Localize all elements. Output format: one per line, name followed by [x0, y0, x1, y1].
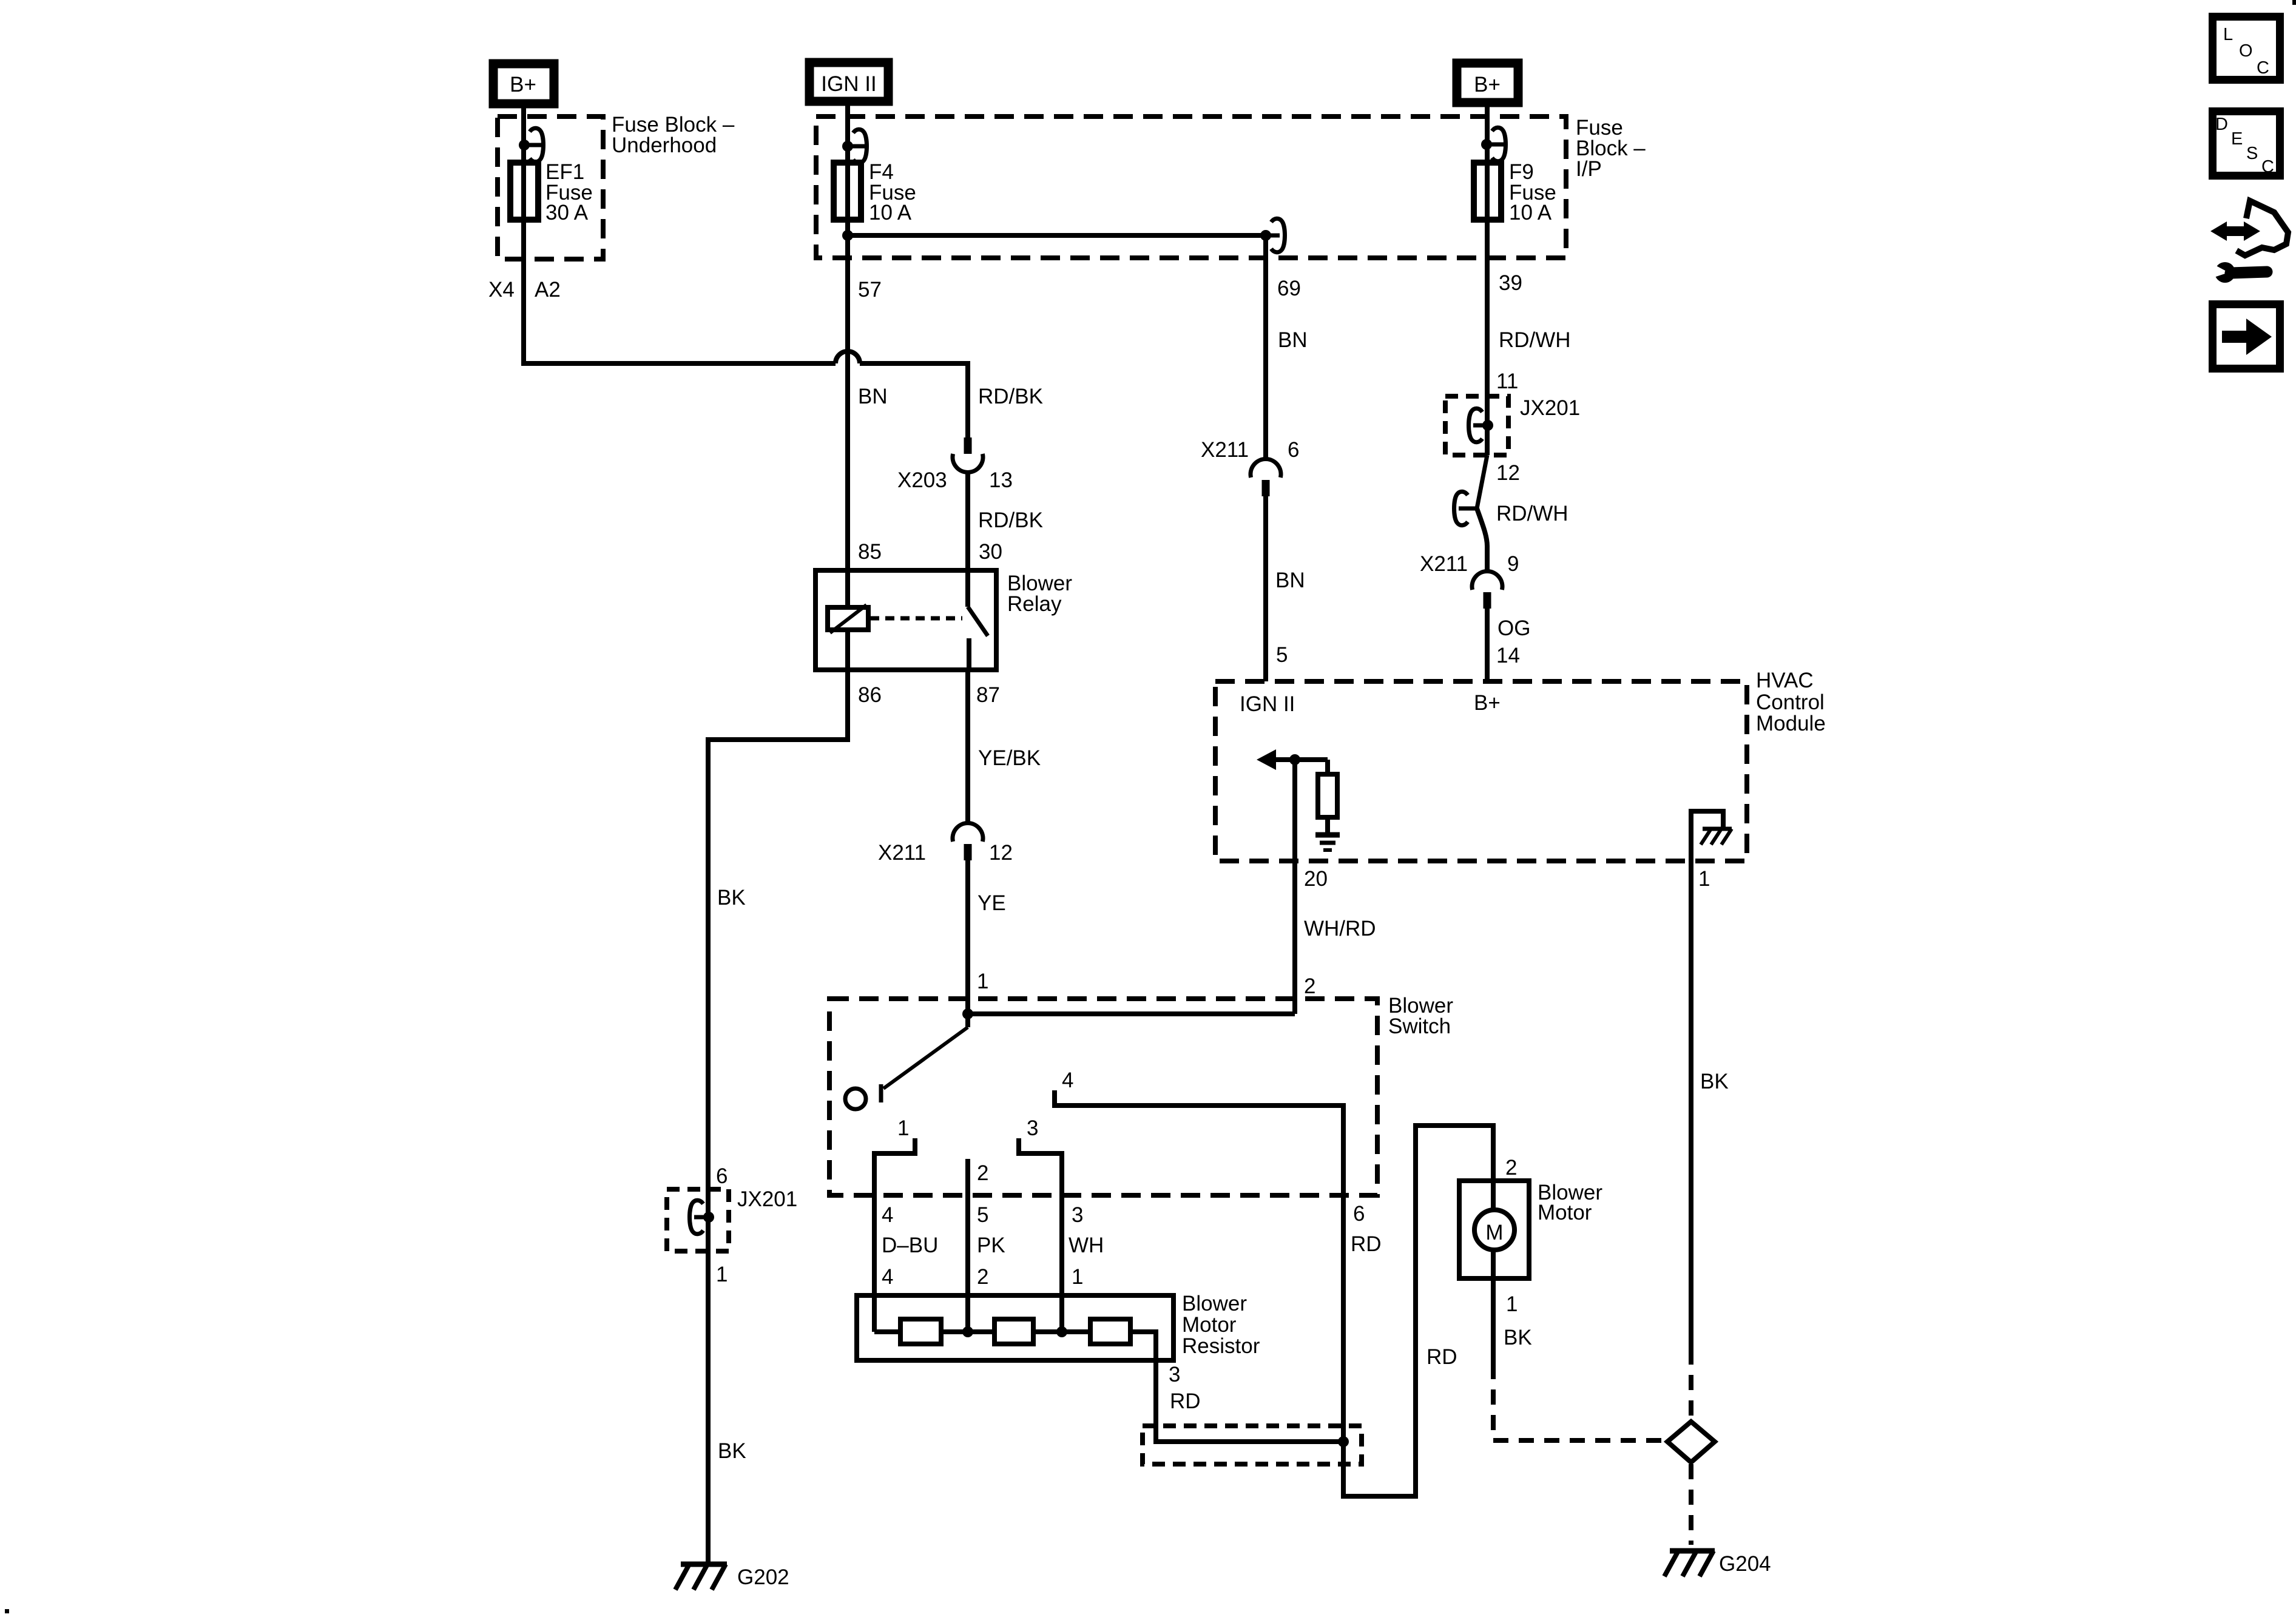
HVAC control module dashed box	[1215, 681, 1747, 861]
svg-text:11: 11	[1496, 370, 1518, 393]
HVAC internal ground	[1315, 832, 1340, 838]
svg-text:X4: X4	[488, 278, 515, 302]
svg-text:BN: BN	[1275, 569, 1305, 592]
page footer dot	[5, 1609, 9, 1613]
HVAC internal resistor	[1325, 760, 1330, 834]
svg-text:2: 2	[1505, 1156, 1517, 1180]
arrow icon box	[2213, 305, 2280, 369]
svg-text:1: 1	[1506, 1292, 1518, 1316]
wire IGN II through F4 down to relay 85	[845, 106, 850, 570]
svg-text:OG: OG	[1497, 616, 1530, 640]
svg-text:D: D	[2215, 115, 2228, 134]
wire YE to blower switch pin 1	[965, 860, 970, 999]
svg-text:JX201: JX201	[1520, 396, 1580, 420]
svg-text:Relay: Relay	[1007, 592, 1062, 616]
svg-text:B+: B+	[510, 73, 536, 96]
svg-text:86: 86	[858, 683, 882, 707]
wire motor pin 1 BK	[1491, 1278, 1496, 1364]
B+ power box (left)	[493, 64, 554, 104]
svg-text:X211: X211	[878, 841, 926, 865]
relay actuating dashed link	[870, 616, 962, 621]
dashed wire BK to splice	[1493, 1364, 1668, 1440]
wire 69 BN down to X211-6	[1263, 235, 1268, 459]
svg-text:X211: X211	[1201, 438, 1249, 462]
svg-text:YE/BK: YE/BK	[978, 746, 1041, 770]
node F9 tap	[1481, 139, 1492, 150]
fuse F4 10A	[834, 163, 861, 220]
svg-text:1: 1	[977, 970, 988, 993]
resistor R1	[900, 1319, 941, 1344]
LOC icon box	[2213, 17, 2280, 80]
svg-text:30 A: 30 A	[545, 201, 589, 224]
svg-text:C: C	[2257, 58, 2269, 78]
svg-text:Motor: Motor	[1182, 1313, 1237, 1337]
wire F9 feed down right side	[1485, 107, 1490, 455]
blower switch wiper junction	[962, 1008, 973, 1019]
svg-text:Switch: Switch	[1388, 1014, 1451, 1038]
connector X211 pin 12	[953, 823, 983, 842]
switch arm	[883, 1027, 968, 1089]
dashed wire to splice	[1689, 1349, 1693, 1419]
svg-text:RD/BK: RD/BK	[978, 508, 1043, 532]
svg-text:30: 30	[979, 540, 1002, 564]
node 69 tap	[1260, 230, 1271, 241]
svg-text:D–BU: D–BU	[882, 1234, 938, 1257]
svg-text:M: M	[1485, 1221, 1503, 1244]
svg-text:BK: BK	[718, 1439, 746, 1463]
resistor R3	[1090, 1319, 1130, 1344]
ground G202	[681, 1562, 727, 1567]
svg-text:BK: BK	[717, 886, 746, 910]
junction JX201 right node	[1482, 420, 1493, 431]
relay switch arm 30-87	[965, 570, 970, 607]
svg-text:2: 2	[977, 1161, 988, 1185]
svg-text:RD: RD	[1351, 1232, 1382, 1256]
blower motor resistor block	[857, 1295, 1173, 1360]
fuse EF1 30A	[510, 163, 538, 220]
wire HVAC pin 1 BK down	[1689, 861, 1693, 1349]
svg-text:9: 9	[1507, 552, 1519, 576]
wire jog at JX201 pin 12	[1477, 455, 1487, 508]
svg-text:4: 4	[882, 1265, 893, 1289]
svg-text:4: 4	[1062, 1068, 1073, 1092]
svg-text:2: 2	[977, 1265, 988, 1289]
splice	[1667, 1422, 1715, 1462]
svg-text:57: 57	[858, 278, 882, 302]
double arrow and connector shape icon	[2210, 201, 2288, 255]
svg-text:B+: B+	[1474, 691, 1501, 715]
DESC icon box	[2213, 112, 2280, 177]
svg-text:PK: PK	[977, 1234, 1005, 1257]
svg-text:BK: BK	[1700, 1070, 1729, 1093]
svg-text:BN: BN	[858, 385, 888, 408]
svg-text:4: 4	[882, 1203, 893, 1227]
svg-text:L: L	[2223, 25, 2233, 44]
svg-text:O: O	[2239, 41, 2253, 61]
resistor chain wire	[874, 1332, 1343, 1442]
svg-text:A2: A2	[535, 278, 561, 302]
connector dashed box (bottom)	[1143, 1426, 1362, 1464]
svg-text:12: 12	[989, 841, 1013, 865]
fuse block I/P dashed box	[816, 116, 1566, 258]
HVAC internal command arrow	[1257, 749, 1276, 770]
page corner mark	[2292, 0, 2296, 5]
svg-text:B+: B+	[1474, 73, 1501, 96]
svg-text:BK: BK	[1504, 1326, 1532, 1349]
svg-text:WH: WH	[1069, 1234, 1104, 1257]
svg-text:1: 1	[897, 1116, 909, 1140]
node RD junction	[1338, 1436, 1349, 1447]
svg-text:Blower: Blower	[1182, 1292, 1247, 1315]
switch off contact circle	[845, 1089, 866, 1109]
svg-text:BN: BN	[1278, 328, 1308, 352]
svg-text:10 A: 10 A	[869, 201, 912, 224]
svg-text:85: 85	[858, 540, 882, 564]
svg-text:20: 20	[1304, 867, 1328, 891]
svg-text:3: 3	[1072, 1203, 1083, 1227]
B+ power box (right)	[1457, 63, 1518, 103]
svg-text:S: S	[2246, 144, 2258, 163]
svg-text:6: 6	[716, 1164, 728, 1188]
fuse F9 10A	[1474, 163, 1501, 220]
fuse block underhood dashed box	[498, 116, 603, 259]
svg-text:YE: YE	[977, 891, 1006, 915]
node PK junction	[962, 1326, 973, 1337]
IGN II power box	[809, 62, 888, 101]
wrench icon	[2210, 262, 2267, 283]
svg-text:JX201: JX201	[737, 1187, 797, 1211]
wire corner to X203	[860, 363, 968, 437]
svg-text:I/P: I/P	[1576, 157, 1602, 181]
svg-text:E: E	[2231, 129, 2243, 149]
svg-text:1: 1	[716, 1263, 728, 1286]
svg-text:13: 13	[989, 468, 1013, 492]
ground G204	[1670, 1548, 1715, 1554]
svg-text:C: C	[2261, 157, 2274, 177]
svg-text:RD/WH: RD/WH	[1496, 502, 1568, 525]
node F4 tap	[842, 141, 853, 152]
node EF1 tap	[519, 140, 530, 150]
connector X211 pin 6	[1251, 459, 1281, 478]
relay coil	[845, 570, 850, 670]
node WH junction	[1056, 1326, 1067, 1337]
wire BN to HVAC pin 5	[1263, 496, 1268, 681]
junction JX201 left node	[703, 1212, 714, 1223]
svg-text:3: 3	[1169, 1363, 1180, 1386]
svg-text:RD/BK: RD/BK	[978, 385, 1043, 408]
junction block JX201 dashed box (right)	[1445, 396, 1508, 455]
svg-text:87: 87	[976, 683, 1000, 707]
svg-text:Underhood: Underhood	[612, 133, 717, 157]
svg-text:X211: X211	[1420, 552, 1468, 576]
svg-text:RD: RD	[1170, 1389, 1201, 1413]
connector X203 pin 13	[964, 437, 972, 454]
svg-text:6: 6	[1288, 438, 1299, 462]
svg-text:5: 5	[977, 1203, 988, 1227]
HVAC internal chassis ground right	[1691, 811, 1723, 861]
svg-text:RD/WH: RD/WH	[1499, 328, 1571, 352]
wire relay 87 YE/BK to X211-12	[965, 670, 970, 823]
svg-text:1: 1	[1698, 867, 1710, 891]
wire B+ to EF1 fuse to X4/A2 to corner	[524, 108, 836, 363]
connector X211 pin 9	[1472, 572, 1502, 590]
svg-text:Motor: Motor	[1538, 1201, 1592, 1224]
svg-text:10 A: 10 A	[1509, 201, 1552, 224]
svg-text:IGN II: IGN II	[1240, 692, 1295, 716]
svg-text:2: 2	[1304, 974, 1315, 998]
svg-text:39: 39	[1499, 271, 1522, 295]
resistor R2	[994, 1319, 1033, 1344]
svg-text:12: 12	[1496, 461, 1520, 485]
svg-text:69: 69	[1277, 277, 1301, 300]
wire HVAC pin 20 WH/RD down to blower switch pin 2	[1292, 760, 1297, 1014]
svg-text:RD: RD	[1427, 1345, 1457, 1369]
svg-text:Resistor: Resistor	[1182, 1334, 1260, 1358]
wire RD/BK to relay 30	[965, 473, 970, 570]
svg-text:X203: X203	[897, 468, 947, 492]
svg-text:IGN II: IGN II	[821, 72, 876, 96]
svg-text:G202: G202	[737, 1565, 789, 1589]
svg-text:6: 6	[1353, 1202, 1365, 1226]
svg-text:G204: G204	[1719, 1552, 1771, 1576]
dashed wire splice to G204	[1689, 1464, 1693, 1545]
wire F4 to fuse block output 69	[848, 233, 1266, 238]
svg-text:HVAC: HVAC	[1756, 669, 1814, 692]
blower switch dashed box	[829, 999, 1377, 1195]
svg-text:WH/RD: WH/RD	[1304, 917, 1376, 940]
wire relay 86 to BK ground run	[708, 670, 848, 1564]
svg-text:1: 1	[1072, 1265, 1083, 1289]
svg-text:5: 5	[1276, 643, 1288, 667]
junction block JX201 dashed box (left)	[667, 1189, 729, 1251]
wire hop over BN wire	[836, 351, 860, 363]
svg-text:Module: Module	[1756, 712, 1826, 735]
svg-text:14: 14	[1496, 644, 1520, 667]
svg-text:Control: Control	[1756, 690, 1825, 714]
wire OG to HVAC pin 14	[1485, 609, 1490, 681]
svg-text:3: 3	[1027, 1116, 1038, 1140]
